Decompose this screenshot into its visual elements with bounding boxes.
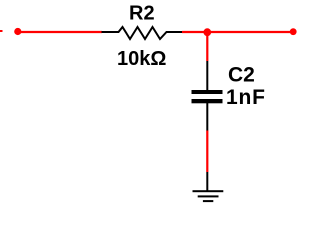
svg-text:10kΩ: 10kΩ xyxy=(117,48,166,70)
svg-text:R2: R2 xyxy=(129,3,155,25)
svg-text:1nF: 1nF xyxy=(226,86,266,109)
svg-text:C2: C2 xyxy=(228,64,255,87)
